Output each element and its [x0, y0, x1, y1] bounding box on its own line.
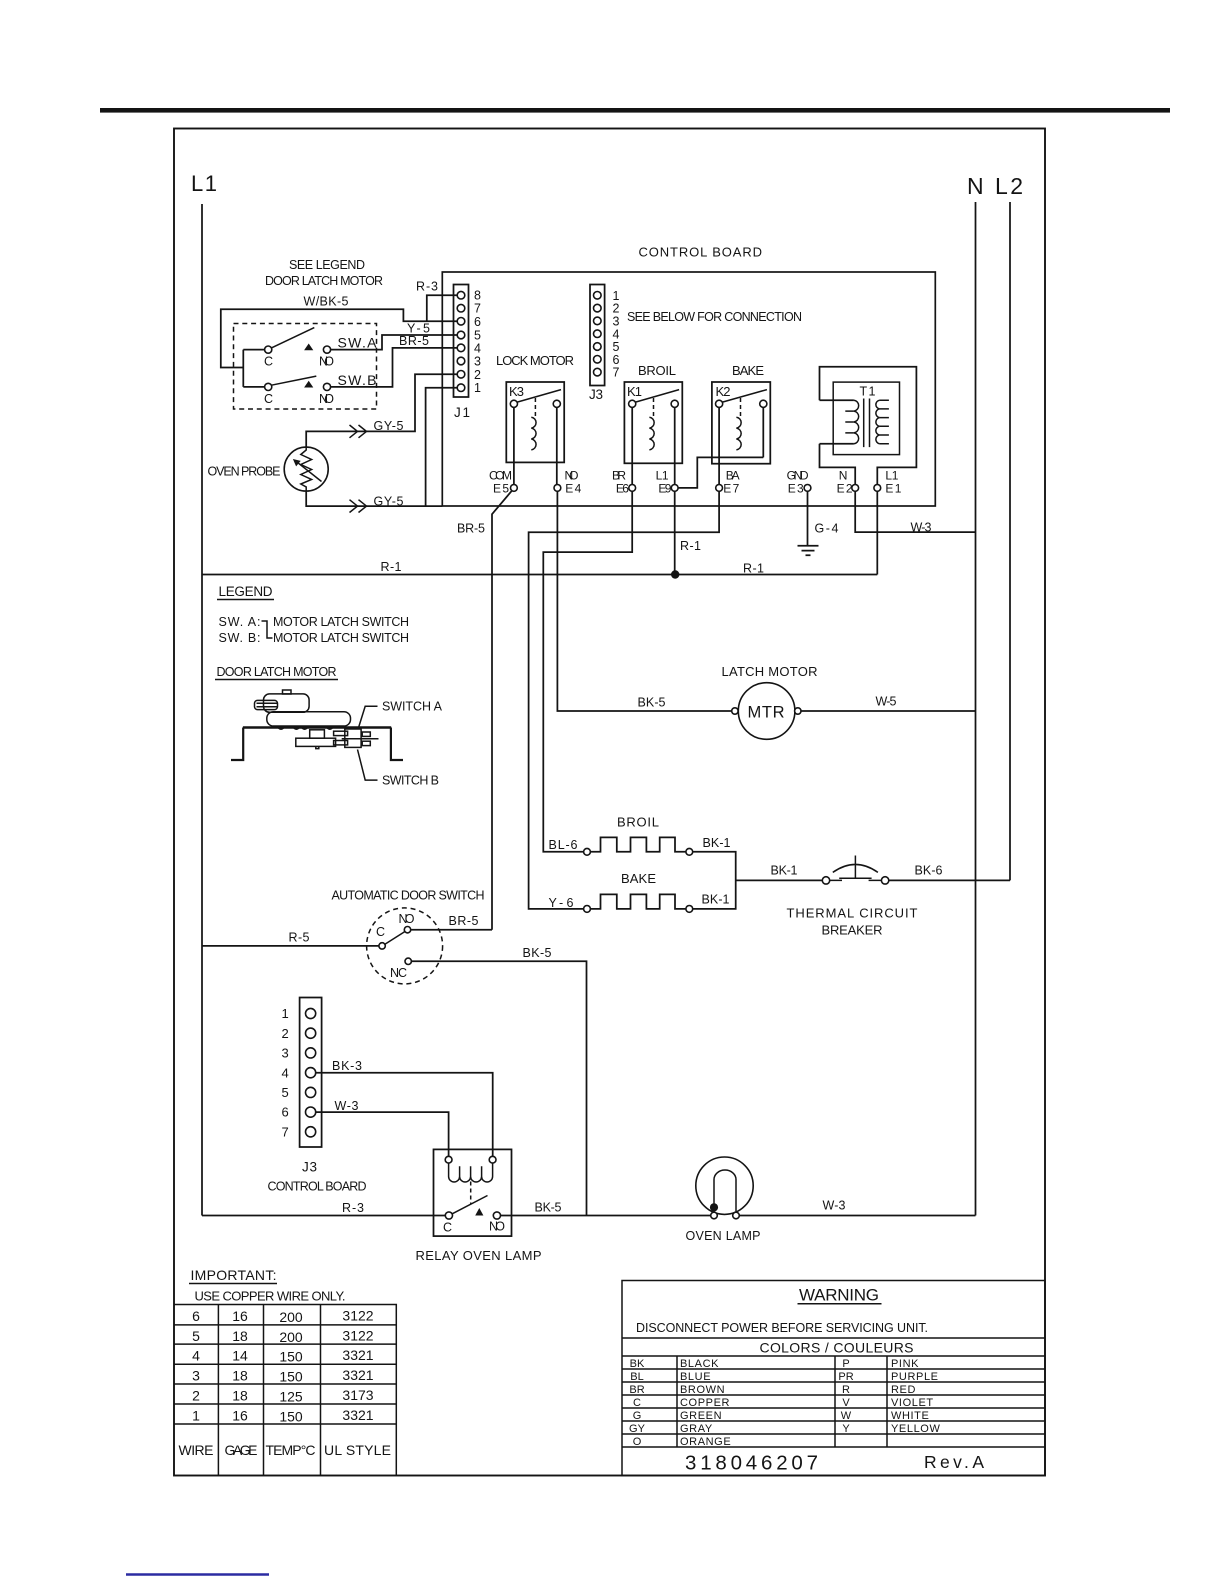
- svg-text:TEMP°C: TEMP°C: [266, 1442, 316, 1458]
- svg-text:BK-3: BK-3: [332, 1059, 362, 1073]
- J1 pin numbers: [474, 289, 481, 396]
- svg-text:BK-5: BK-5: [638, 696, 666, 710]
- svg-text:WARNING: WARNING: [799, 1286, 879, 1305]
- svg-text:3122: 3122: [342, 1308, 373, 1324]
- svg-text:Y: Y: [842, 1423, 850, 1435]
- svg-text:SWITCH B: SWITCH B: [382, 774, 439, 788]
- automatic door switch: [332, 889, 485, 984]
- svg-text:RED: RED: [891, 1384, 916, 1396]
- svg-text:COPPER: COPPER: [680, 1397, 730, 1409]
- svg-text:5: 5: [192, 1328, 200, 1344]
- svg-text:R-3: R-3: [342, 1201, 364, 1215]
- svg-text:N: N: [967, 173, 984, 199]
- connector J1: [454, 285, 469, 398]
- wire N rail: [975, 202, 977, 1216]
- svg-text:3: 3: [192, 1368, 200, 1384]
- door latch motor drawing: [231, 690, 403, 760]
- svg-text:SW.A: SW.A: [338, 335, 378, 351]
- svg-text:BLUE: BLUE: [680, 1371, 711, 1383]
- svg-text:O: O: [633, 1436, 642, 1448]
- switch SW.A: [264, 328, 377, 369]
- svg-text:W: W: [841, 1410, 852, 1422]
- svg-text:C: C: [633, 1397, 641, 1409]
- svg-text:J3: J3: [589, 387, 603, 402]
- relay K3 lock motor: [496, 353, 574, 485]
- svg-text:SW.B: SW.B: [338, 372, 377, 388]
- svg-text:K3: K3: [509, 384, 524, 399]
- broil element: [584, 815, 693, 856]
- svg-text:BK-6: BK-6: [915, 864, 943, 878]
- svg-text:125: 125: [279, 1389, 303, 1405]
- svg-text:5: 5: [282, 1085, 289, 1100]
- svg-text:BAKE: BAKE: [732, 363, 764, 378]
- svg-text:E9: E9: [658, 481, 671, 495]
- svg-text:LOCK MOTOR: LOCK MOTOR: [496, 353, 574, 368]
- svg-text:7: 7: [613, 366, 620, 380]
- blue footer line: [126, 1573, 269, 1575]
- svg-text:GAGE: GAGE: [225, 1442, 258, 1458]
- svg-text:R-1: R-1: [680, 539, 701, 553]
- color table codes left: [629, 1358, 646, 1448]
- relay oven lamp: [434, 1149, 512, 1236]
- relay K2 bake: [712, 363, 770, 485]
- svg-text:LATCH MOTOR: LATCH MOTOR: [722, 664, 818, 679]
- svg-text:2: 2: [192, 1388, 200, 1404]
- svg-text:18: 18: [232, 1368, 248, 1384]
- svg-text:PINK: PINK: [891, 1358, 919, 1370]
- svg-text:WIRE: WIRE: [179, 1442, 214, 1458]
- svg-text:318046207: 318046207: [685, 1452, 818, 1475]
- svg-text:BL-6: BL-6: [549, 838, 578, 852]
- svg-text:W-5: W-5: [876, 695, 897, 709]
- svg-text:BROIL: BROIL: [617, 815, 659, 830]
- svg-text:RELAY OVEN LAMP: RELAY OVEN LAMP: [416, 1248, 542, 1263]
- svg-text:GREEN: GREEN: [680, 1410, 722, 1422]
- svg-text:BK: BK: [630, 1358, 645, 1370]
- svg-text:NC: NC: [390, 966, 407, 980]
- svg-text:200: 200: [279, 1309, 303, 1325]
- svg-text:YELLOW: YELLOW: [891, 1423, 940, 1435]
- svg-text:AUTOMATIC DOOR SWITCH: AUTOMATIC DOOR SWITCH: [332, 889, 485, 903]
- svg-text:BK-1: BK-1: [771, 864, 798, 878]
- svg-text:BR-5: BR-5: [449, 914, 479, 928]
- svg-text:OVEN LAMP: OVEN LAMP: [686, 1229, 761, 1243]
- svg-text:USE COPPER WIRE ONLY.: USE COPPER WIRE ONLY.: [195, 1289, 346, 1304]
- svg-text:R-1: R-1: [381, 560, 402, 574]
- svg-text:200: 200: [279, 1329, 303, 1345]
- svg-text:GRAY: GRAY: [680, 1423, 713, 1435]
- svg-text:MOTOR LATCH SWITCH: MOTOR LATCH SWITCH: [273, 631, 409, 645]
- svg-text:C: C: [376, 925, 385, 939]
- svg-text:3122: 3122: [342, 1328, 373, 1344]
- svg-text:7: 7: [282, 1124, 289, 1139]
- svg-text:OVEN PROBE: OVEN PROBE: [208, 465, 281, 479]
- latch motor MTR: [722, 664, 818, 739]
- svg-text:6: 6: [192, 1308, 200, 1324]
- svg-text:150: 150: [279, 1369, 303, 1385]
- svg-text:NO: NO: [319, 392, 334, 406]
- svg-text:1: 1: [282, 1006, 289, 1021]
- svg-text:LEGEND: LEGEND: [219, 584, 273, 599]
- svg-text:GY: GY: [629, 1423, 646, 1435]
- svg-text:UL STYLE: UL STYLE: [324, 1442, 391, 1458]
- svg-text:3321: 3321: [342, 1347, 373, 1363]
- svg-text:BLACK: BLACK: [680, 1358, 719, 1370]
- svg-text:1: 1: [192, 1408, 200, 1424]
- svg-text:2: 2: [282, 1026, 289, 1041]
- svg-text:3173: 3173: [342, 1387, 373, 1403]
- svg-text:SW. A:: SW. A:: [219, 615, 261, 629]
- svg-text:150: 150: [279, 1349, 303, 1365]
- svg-text:BR-5: BR-5: [457, 522, 485, 536]
- svg-text:4: 4: [282, 1065, 289, 1080]
- svg-text:1: 1: [474, 381, 481, 395]
- J3 top pin numbers: [613, 289, 620, 380]
- svg-text:PR: PR: [838, 1371, 853, 1383]
- bake element: [584, 871, 693, 912]
- border frame: [174, 129, 1045, 1476]
- svg-text:BR-5: BR-5: [399, 334, 429, 348]
- wire L2 rail: [1009, 202, 1011, 880]
- svg-text:3321: 3321: [342, 1367, 373, 1383]
- door latch motor dashed box: [234, 324, 377, 410]
- svg-text:DOOR LATCH MOTOR: DOOR LATCH MOTOR: [217, 665, 337, 679]
- svg-text:R-3: R-3: [416, 280, 438, 294]
- svg-text:SEE BELOW FOR CONNECTION: SEE BELOW FOR CONNECTION: [627, 310, 802, 324]
- svg-text:2: 2: [474, 368, 481, 382]
- svg-text:CONTROL BOARD: CONTROL BOARD: [639, 245, 763, 260]
- svg-text:BR: BR: [629, 1384, 644, 1396]
- svg-text:BROWN: BROWN: [680, 1384, 725, 1396]
- svg-text:BREAKER: BREAKER: [822, 923, 883, 938]
- svg-text:MTR: MTR: [748, 704, 785, 722]
- svg-text:G-4: G-4: [815, 522, 839, 536]
- svg-text:DOOR LATCH MOTOR: DOOR LATCH MOTOR: [265, 274, 383, 288]
- svg-text:G: G: [633, 1410, 642, 1422]
- svg-text:BL: BL: [630, 1371, 643, 1383]
- svg-text:SEE LEGEND: SEE LEGEND: [289, 258, 365, 272]
- oven lamp: [696, 1157, 753, 1219]
- svg-text:J3: J3: [302, 1160, 317, 1175]
- wire gauge table text: [179, 1308, 392, 1459]
- svg-text:WHITE: WHITE: [891, 1410, 929, 1422]
- svg-text:NO: NO: [489, 1220, 505, 1234]
- color table names right: [891, 1358, 940, 1435]
- svg-text:Y-6: Y-6: [549, 896, 574, 910]
- svg-text:SWITCH A: SWITCH A: [382, 700, 443, 714]
- junction dot R-1/E9: [671, 570, 679, 578]
- svg-text:W-3: W-3: [823, 1199, 846, 1213]
- wire gauge table: [174, 1305, 396, 1476]
- svg-text:DISCONNECT POWER BEFORE SERVIC: DISCONNECT POWER BEFORE SERVICING UNIT.: [636, 1321, 928, 1335]
- svg-text:16: 16: [232, 1308, 248, 1324]
- svg-text:3: 3: [613, 314, 620, 328]
- J3 bottom pin numbers: [282, 1006, 289, 1139]
- top rule: [100, 108, 1170, 113]
- thermal circuit breaker: [787, 856, 918, 938]
- svg-text:K2: K2: [716, 384, 731, 399]
- svg-text:R-5: R-5: [289, 931, 310, 945]
- svg-text:8: 8: [474, 289, 481, 303]
- svg-text:BROIL: BROIL: [638, 363, 676, 378]
- svg-text:K1: K1: [627, 384, 642, 399]
- svg-text:BK-1: BK-1: [703, 836, 731, 850]
- svg-text:5: 5: [474, 329, 481, 343]
- color table names left: [680, 1358, 731, 1448]
- svg-text:E6: E6: [616, 481, 629, 495]
- svg-text:PURPLE: PURPLE: [891, 1371, 939, 1383]
- svg-text:BAKE: BAKE: [621, 871, 656, 886]
- svg-text:IMPORTANT:: IMPORTANT:: [191, 1267, 277, 1283]
- warning box: [622, 1281, 1045, 1476]
- wire E1 drop: [876, 491, 878, 574]
- svg-text:3: 3: [474, 355, 481, 369]
- svg-text:R: R: [842, 1384, 850, 1396]
- relay K1 broil: [624, 363, 682, 485]
- svg-text:MOTOR LATCH SWITCH: MOTOR LATCH SWITCH: [273, 615, 409, 629]
- color table codes right: [838, 1358, 853, 1435]
- svg-text:BK-1: BK-1: [702, 893, 730, 907]
- svg-text:6: 6: [282, 1105, 289, 1120]
- svg-text:VIOLET: VIOLET: [891, 1397, 934, 1409]
- svg-text:BK-5: BK-5: [535, 1201, 562, 1215]
- svg-text:COLORS / COULEURS: COLORS / COULEURS: [760, 1340, 914, 1356]
- svg-text:7: 7: [474, 302, 481, 316]
- svg-text:R-1: R-1: [743, 562, 764, 576]
- svg-text:16: 16: [232, 1408, 248, 1424]
- svg-text:NO: NO: [319, 355, 334, 369]
- svg-text:ORANGE: ORANGE: [680, 1436, 731, 1448]
- wire E3 to ground: [807, 491, 809, 546]
- transformer T1: [820, 367, 917, 485]
- wire C common link: [243, 350, 264, 387]
- svg-text:SW. B:: SW. B:: [219, 631, 261, 645]
- svg-text:CONTROL BOARD: CONTROL BOARD: [268, 1180, 367, 1194]
- control board box: [442, 272, 935, 506]
- svg-text:6: 6: [474, 315, 481, 329]
- svg-text:C: C: [264, 355, 273, 369]
- svg-text:C: C: [443, 1221, 452, 1235]
- svg-text:C: C: [264, 392, 273, 406]
- svg-text:W-3: W-3: [335, 1099, 359, 1113]
- svg-text:Rev.A: Rev.A: [924, 1452, 984, 1472]
- svg-text:3321: 3321: [342, 1407, 373, 1423]
- wire E9 to K2 contact: [678, 457, 763, 488]
- svg-text:NO: NO: [399, 912, 415, 926]
- oven probe: [208, 447, 329, 491]
- svg-text:L1: L1: [191, 171, 217, 196]
- svg-text:14: 14: [232, 1348, 248, 1364]
- wire L1 rail: [201, 204, 203, 1216]
- svg-text:W/BK-5: W/BK-5: [304, 295, 349, 309]
- svg-text:4: 4: [474, 341, 481, 355]
- svg-text:4: 4: [192, 1348, 200, 1364]
- connector J3 bottom: [300, 998, 322, 1148]
- svg-text:J1: J1: [454, 405, 470, 420]
- legend bracket: [262, 621, 273, 638]
- connector J3 top: [590, 285, 605, 386]
- svg-text:THERMAL CIRCUIT: THERMAL CIRCUIT: [787, 906, 918, 921]
- svg-text:P: P: [842, 1358, 849, 1370]
- svg-text:3: 3: [282, 1046, 289, 1061]
- svg-text:150: 150: [279, 1409, 303, 1425]
- svg-text:18: 18: [232, 1328, 248, 1344]
- svg-text:BK-5: BK-5: [523, 946, 552, 960]
- svg-text:18: 18: [232, 1388, 248, 1404]
- svg-text:V: V: [842, 1397, 850, 1409]
- switch SW.B: [264, 372, 377, 406]
